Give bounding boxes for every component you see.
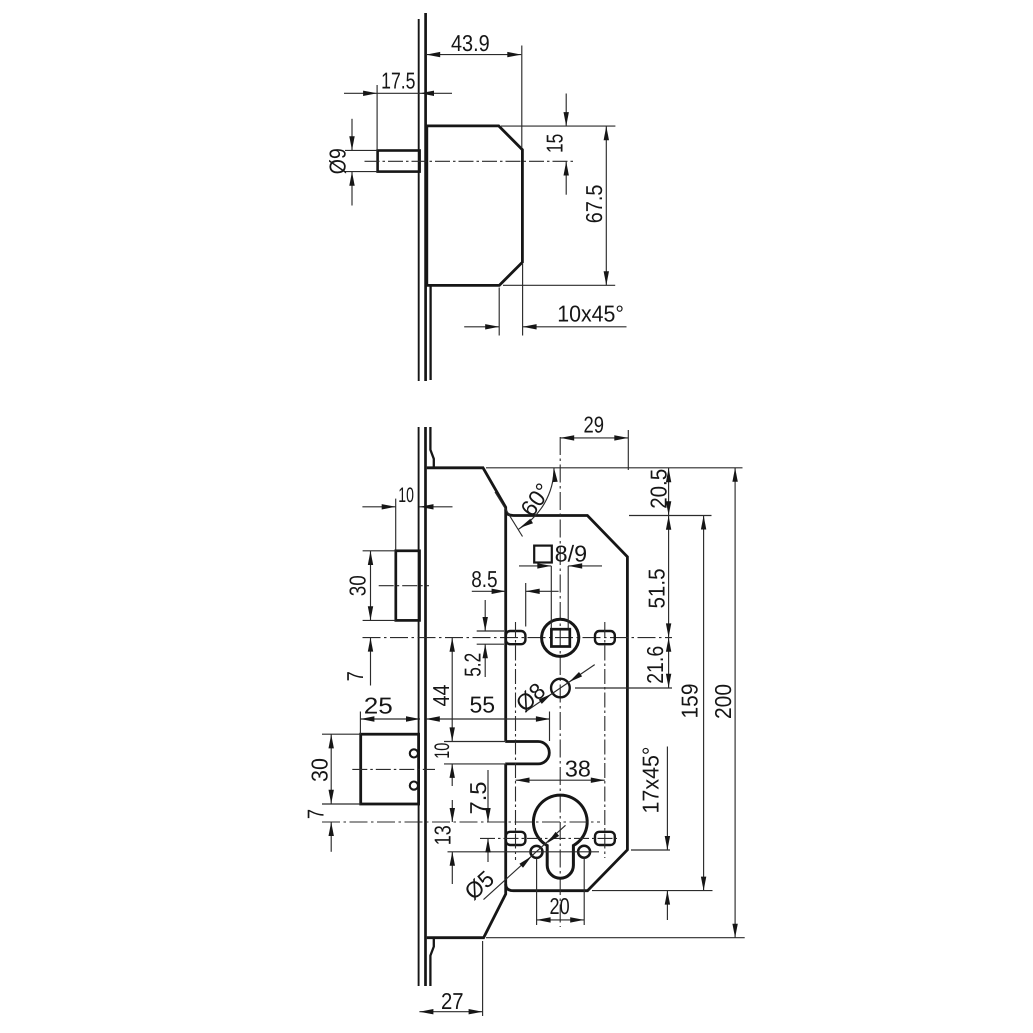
ext line case top edge <box>486 467 743 469</box>
hole Ø8 <box>551 679 570 698</box>
svg-text:7: 7 <box>342 671 368 681</box>
hub centerline <box>379 585 429 587</box>
dim 159 <box>677 516 707 891</box>
leader Ø8 <box>511 665 595 717</box>
dim 15 <box>542 94 569 195</box>
follower circle <box>542 619 579 656</box>
slot upper left <box>506 631 526 644</box>
svg-text:7.5: 7.5 <box>465 782 491 815</box>
ext line case bottom right edge <box>592 890 713 892</box>
dim 27 <box>419 941 482 1016</box>
svg-text:67.5: 67.5 <box>581 185 607 224</box>
svg-text:20: 20 <box>550 893 570 919</box>
vertical centerline <box>559 437 561 927</box>
lock case outline right part <box>506 510 628 891</box>
faceplate (front view) <box>424 427 427 986</box>
dim 20 <box>537 858 585 925</box>
dim 10 hub <box>362 484 452 550</box>
case front jog top <box>430 427 433 468</box>
slot upper right <box>595 631 615 644</box>
deadbolt pin 2 <box>410 782 418 790</box>
spindle stub (side view) <box>378 151 420 172</box>
svg-text:8/9: 8/9 <box>555 541 588 567</box>
deadbolt (front view) <box>361 734 419 804</box>
dim 51.5 <box>644 516 672 638</box>
ext line hole row lower <box>448 851 600 853</box>
svg-text:17x45°: 17x45° <box>638 747 664 814</box>
slot lower right <box>595 832 615 845</box>
dim 30 lower <box>306 734 360 804</box>
hole Ø5 right <box>578 846 590 858</box>
dim 20.5 <box>646 468 672 516</box>
svg-text:21.6: 21.6 <box>642 646 668 684</box>
dim 10x45° <box>464 264 626 336</box>
dim 30 upper <box>344 551 395 621</box>
svg-text:43.9: 43.9 <box>451 30 490 56</box>
svg-text:7: 7 <box>303 809 329 819</box>
dim 7.5 <box>465 770 491 862</box>
dim 5.2 <box>460 600 505 677</box>
door/plate front line (front view) <box>418 427 420 986</box>
dim 17x45° <box>631 747 670 921</box>
ext line case bottom edge <box>486 937 745 939</box>
case front jog bottom <box>430 938 433 986</box>
hole Ø5 left <box>531 846 543 858</box>
svg-text:13: 13 <box>429 825 455 845</box>
ext line bottom edge <box>503 284 615 286</box>
latch tail slot <box>505 742 549 764</box>
ext line top edge <box>501 125 615 127</box>
svg-text:15: 15 <box>542 134 568 153</box>
follower centerline horizontal <box>363 637 673 639</box>
leader Ø5 <box>459 825 565 905</box>
ext line hole 8 row <box>575 687 672 689</box>
deadbolt pin 1 <box>410 749 418 757</box>
dim 55 <box>426 692 550 742</box>
svg-text:8.5: 8.5 <box>471 566 497 592</box>
dim square 8/9 <box>519 541 602 629</box>
svg-text:51.5: 51.5 <box>644 569 670 609</box>
slot lower left <box>506 832 526 845</box>
svg-text:27: 27 <box>441 988 464 1014</box>
svg-text:38: 38 <box>565 755 591 781</box>
spindle hub (front view) <box>396 551 420 621</box>
dim 7 upper <box>342 638 373 686</box>
slot column centerline left <box>515 622 517 860</box>
svg-text:25: 25 <box>364 692 393 718</box>
svg-text:55: 55 <box>470 692 496 718</box>
stub centerline <box>365 160 576 162</box>
dim 10 latch slot <box>431 742 505 787</box>
svg-text:30: 30 <box>306 758 332 782</box>
dim 44 <box>428 638 455 742</box>
dim 29 <box>560 411 628 470</box>
dim Ø9 <box>325 119 378 206</box>
svg-text:17.5: 17.5 <box>381 68 415 94</box>
dim 38 <box>516 755 605 783</box>
cylinder centerline <box>322 821 600 823</box>
svg-text:Ø9: Ø9 <box>325 148 351 174</box>
svg-text:10: 10 <box>398 484 414 507</box>
svg-text:10: 10 <box>431 743 454 759</box>
ext line slot row lower <box>480 837 617 839</box>
lock case outline left nose <box>427 468 506 938</box>
slot column centerline right <box>604 622 606 858</box>
ext line case upper right edge <box>629 515 712 517</box>
dim 25 <box>360 692 420 734</box>
follower square <box>551 629 569 646</box>
dim 21.6 <box>642 638 671 688</box>
dim 60° <box>495 468 558 537</box>
case edge behind faceplate (side view) <box>429 287 431 381</box>
svg-text:159: 159 <box>677 684 703 719</box>
dim 7 lower <box>303 809 334 852</box>
lock case body (side view) <box>427 126 523 286</box>
dim 67.5 <box>581 126 609 285</box>
dim 43.9 <box>426 30 522 148</box>
svg-text:29: 29 <box>583 411 604 437</box>
cylinder keyhole <box>533 795 587 878</box>
svg-text:5.2: 5.2 <box>460 653 486 677</box>
svg-text:44: 44 <box>428 684 454 706</box>
deadbolt centerline <box>352 768 435 770</box>
dim 13 <box>429 800 455 884</box>
dim 17.5 <box>344 68 452 151</box>
svg-text:20.5: 20.5 <box>646 469 672 509</box>
svg-text:10x45°: 10x45° <box>557 301 624 327</box>
svg-text:30: 30 <box>344 575 370 596</box>
dim 8.5 <box>471 566 558 626</box>
dim 200 <box>710 468 738 938</box>
svg-text:200: 200 <box>710 684 736 719</box>
faceplate (side view) <box>424 13 427 381</box>
door/plate front line (side view) <box>418 19 420 381</box>
